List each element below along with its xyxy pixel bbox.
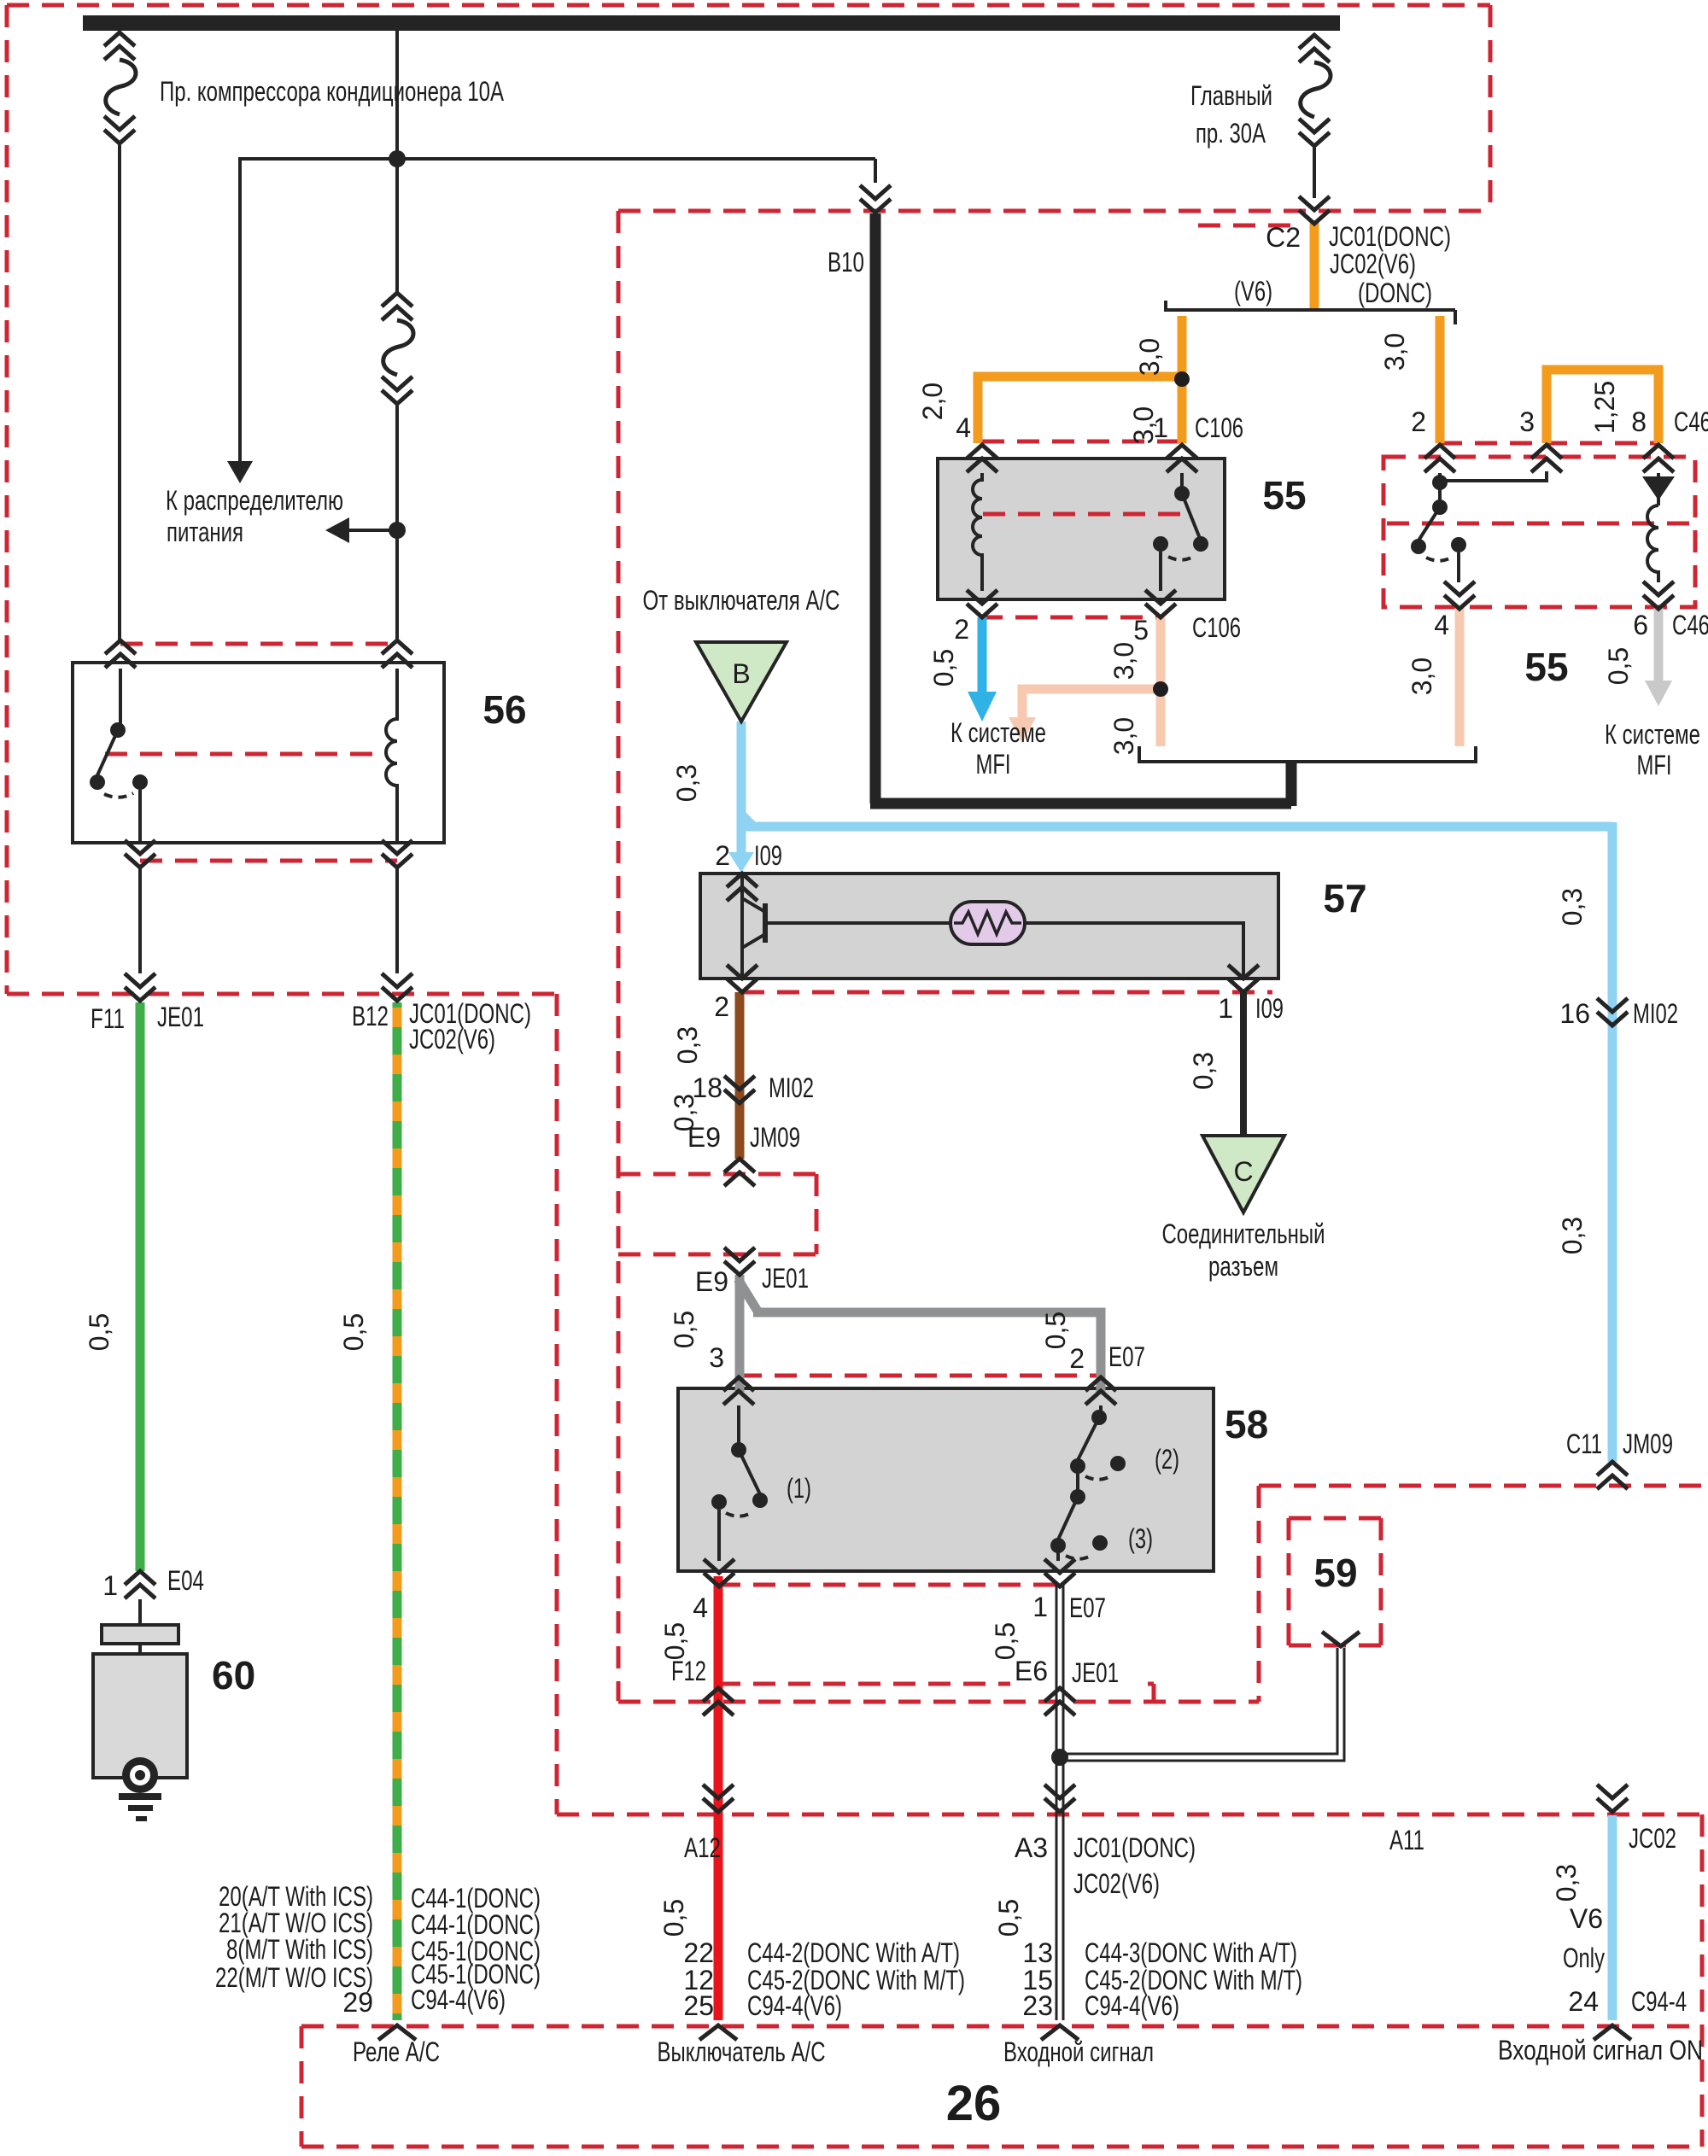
svg-text:C46: C46: [1674, 406, 1708, 437]
ECU pin arrow Vkhodnoy signal: [1041, 2025, 1079, 2040]
relay 55 right pin 6 arrow: [1643, 581, 1674, 609]
svg-text:Главный: Главный: [1190, 80, 1272, 111]
svg-text:JE01: JE01: [1072, 1657, 1119, 1688]
svg-text:1: 1: [1032, 1592, 1048, 1622]
wire relay 56 to B12 connector: [395, 868, 399, 973]
connector JE01 E9 arrow: [724, 1247, 755, 1275]
wire lightblue vertical right to C11 JM09: [1608, 822, 1617, 1462]
relay 55 left coil: [973, 473, 982, 591]
svg-text:пр. 30А: пр. 30А: [1196, 118, 1266, 149]
svg-text:C106: C106: [1192, 612, 1241, 643]
junction dot orange at pin1 C106: [1174, 371, 1190, 387]
connector F12 arrow: [703, 1688, 734, 1715]
svg-text:(1): (1): [787, 1473, 811, 1504]
svg-text:0,3: 0,3: [672, 1026, 703, 1064]
connector C46 dashed line: [1440, 441, 1658, 446]
fuse main 30A: [1299, 35, 1331, 146]
connector JE01 dashed line y1972: [718, 1684, 1154, 1702]
svg-text:Only: Only: [1563, 1943, 1605, 1973]
wire green 0.5 F11 JE01: [136, 1002, 145, 1571]
svg-text:5: 5: [1133, 615, 1149, 646]
connector A11 arrow: [1597, 1785, 1628, 1812]
svg-text:55: 55: [1524, 645, 1568, 689]
wire orange 1.25 loop pin3 to pin8 C46: [1547, 370, 1658, 443]
svg-text:(V6): (V6): [1234, 276, 1272, 307]
branch line V6 DONC: [1164, 301, 1455, 324]
triangle C junction connector: [1202, 1136, 1284, 1212]
relay 55 left pin 2 arrow: [967, 590, 997, 617]
connector C2 dashed line: [1198, 224, 1298, 228]
wire red 0.5 pin4 to A12: [714, 1576, 723, 2020]
relay 57 internal line: [765, 923, 1243, 979]
svg-text:E07: E07: [1108, 1341, 1145, 1372]
connector E6 JE01 arrow: [1044, 1688, 1075, 1715]
wire E04 to compressor clutch: [138, 1599, 142, 1654]
relay 55 right pin 8 arrow: [1643, 445, 1674, 472]
svg-text:2: 2: [714, 991, 729, 1022]
svg-text:E9: E9: [695, 1266, 728, 1297]
wire second fuse to relay 56 coil pin: [395, 406, 399, 640]
power bus bar: [83, 15, 1340, 31]
svg-text:B: B: [732, 658, 750, 689]
svg-text:0,5: 0,5: [1040, 1312, 1071, 1349]
svg-text:A12: A12: [684, 1832, 721, 1863]
relay 58 switch 1: [719, 1405, 760, 1561]
svg-text:B12: B12: [352, 1001, 389, 1031]
svg-text:60: 60: [212, 1653, 255, 1697]
distribution feed line: [240, 159, 875, 465]
wire thick black B10 run: [870, 213, 1291, 806]
connector JM09 E9 arrow: [724, 1159, 755, 1186]
svg-text:0,5: 0,5: [669, 1311, 699, 1348]
relay 55 right pin 4 arrow: [1444, 581, 1475, 609]
relay 58 pin 2 arrow: [1085, 1377, 1116, 1405]
svg-text:C44-3(DONC With A/T): C44-3(DONC With A/T): [1085, 1937, 1297, 1968]
svg-text:0,5: 0,5: [990, 1622, 1021, 1660]
svg-text:8: 8: [1631, 406, 1647, 437]
svg-text:3: 3: [1519, 406, 1535, 437]
harness right edge x1993: [1700, 1814, 1705, 2147]
wire black 0.3 pin1 I09 to C: [1240, 992, 1247, 1137]
svg-text:25: 25: [683, 1990, 714, 2021]
wire orange to pin2 C46: [1436, 316, 1445, 443]
svg-text:E9: E9: [687, 1122, 721, 1153]
harness box bottom edge y1164: [7, 992, 557, 996]
junction dot salmon pin5: [1153, 681, 1168, 697]
relay 56 coil: [386, 669, 397, 842]
svg-text:1,25: 1,25: [1589, 381, 1620, 434]
black bracket joining salmon wires: [1139, 746, 1476, 762]
svg-text:C94-4(V6): C94-4(V6): [411, 1984, 506, 2015]
relay 55 left pin 5 arrow: [1145, 590, 1176, 617]
svg-text:C46: C46: [1672, 610, 1708, 640]
arrowhead to power distribution: [227, 461, 253, 483]
relay 55 right pin 3 arrow: [1531, 445, 1562, 472]
svg-text:0,3: 0,3: [1188, 1052, 1219, 1090]
svg-text:26: 26: [946, 2076, 1002, 2131]
wire gray 0.5 loop to pin2 E07: [738, 1279, 1101, 1392]
junction dot white wire: [1051, 1749, 1068, 1766]
svg-text:C106: C106: [1195, 412, 1243, 443]
svg-text:C44-2(DONC With A/T): C44-2(DONC With A/T): [747, 1937, 960, 1968]
harness box left edge: [5, 5, 9, 994]
svg-text:MFI: MFI: [976, 749, 1011, 780]
svg-text:0,3: 0,3: [671, 764, 702, 802]
svg-text:16: 16: [1559, 998, 1590, 1029]
relay 55 right middle dashed: [1387, 522, 1693, 526]
wire salmon 3.0 from pin5 C106: [1156, 617, 1166, 746]
wire orange 2.0 loop to pin4 C106: [978, 377, 1182, 443]
svg-text:JC02(V6): JC02(V6): [409, 1024, 495, 1055]
svg-text:23: 23: [1022, 1990, 1053, 2021]
thermostat switch 58 body: [678, 1388, 1214, 1571]
relay 56 pin arrows bottom: [125, 840, 155, 868]
svg-text:3,0: 3,0: [1108, 717, 1139, 755]
connector C106 dashed lines (relay 55 left): [980, 441, 1184, 617]
svg-text:0,5: 0,5: [928, 649, 959, 687]
svg-text:К системе: К системе: [951, 717, 1046, 748]
connector A12 arrow: [703, 1785, 734, 1812]
harness box top edge: [7, 3, 1490, 8]
svg-text:2,0: 2,0: [917, 383, 948, 420]
wire white double pin1 E07 to A3: [1056, 1585, 1063, 2020]
wire main fuse to C2: [1313, 148, 1316, 198]
wire orange branch to pin1 C106: [1178, 316, 1187, 443]
connector B10 arrow: [874, 159, 877, 183]
svg-text:1: 1: [1218, 993, 1233, 1024]
block 59 inner dashed box: [1289, 1518, 1381, 1645]
svg-text:V6: V6: [1570, 1903, 1603, 1934]
junction dot distribution branch: [389, 522, 406, 539]
svg-text:E07: E07: [1069, 1592, 1106, 1623]
svg-text:3,0: 3,0: [1134, 338, 1165, 376]
svg-text:C94-4(V6): C94-4(V6): [747, 1990, 842, 2021]
relay 57 pin 2 top arrow: [727, 874, 757, 901]
harness bottom dashed y1993: [618, 1700, 1259, 1704]
relay 57 transistor: [742, 874, 765, 979]
connector MI02 16 arrow: [1597, 998, 1628, 1025]
svg-text:0,5: 0,5: [338, 1313, 369, 1351]
svg-text:24: 24: [1568, 1986, 1599, 2017]
relay 56 pin arrows top: [105, 640, 136, 668]
svg-text:13: 13: [1022, 1937, 1053, 1968]
svg-text:I09: I09: [1255, 993, 1284, 1024]
relay 57 pin 1 bottom arrow: [1228, 965, 1259, 992]
ground symbol compressor: [119, 1793, 161, 1800]
wire salmon 3.0 from pin4 C46: [1455, 607, 1465, 746]
svg-text:C94-4: C94-4: [1631, 1986, 1687, 2017]
relay 57 resistor capsule: [951, 902, 1025, 944]
relay 58 pin 4 arrow: [704, 1559, 734, 1586]
svg-text:3,0: 3,0: [1108, 642, 1139, 680]
relay 55 right dashed box: [1383, 457, 1695, 607]
harness box inner top edge y247: [618, 209, 1490, 213]
svg-text:F12: F12: [671, 1656, 706, 1686]
svg-text:питания: питания: [167, 517, 243, 547]
harness horizontal y2125: [557, 1813, 1702, 1817]
svg-text:57: 57: [1323, 876, 1366, 920]
svg-text:JC02(V6): JC02(V6): [1073, 1868, 1160, 1899]
relay 55 left pin 1 arrow: [1167, 445, 1197, 472]
svg-text:JC02(V6): JC02(V6): [1330, 248, 1416, 279]
connector JM09 C11 arrow: [1597, 1462, 1628, 1489]
svg-text:(2): (2): [1155, 1444, 1179, 1475]
junction dot top feed: [389, 150, 406, 167]
ECU pin arrow Rele A/C: [378, 2025, 416, 2040]
wire blue 0.5 from pin2 C106 to MFI: [978, 617, 987, 693]
svg-text:1: 1: [102, 1570, 118, 1601]
wire lightblue from triangle B: [737, 722, 746, 854]
svg-text:Пр. компрессора кондиционера 1: Пр. компрессора кондиционера 10А: [160, 76, 504, 107]
svg-text:0,3: 0,3: [1557, 888, 1588, 926]
arrow branch to distribution: [348, 529, 397, 532]
svg-text:JM09: JM09: [1623, 1429, 1673, 1459]
svg-text:A3: A3: [1015, 1832, 1048, 1863]
connector C2 arrow: [1299, 196, 1330, 224]
svg-text:C: C: [1233, 1156, 1253, 1187]
svg-text:0,5: 0,5: [993, 1899, 1024, 1937]
relay 58 pin 1 arrow: [1044, 1559, 1075, 1586]
block 59 outer dashed left edge: [1257, 1486, 1261, 1702]
svg-text:0,5: 0,5: [659, 1622, 690, 1660]
svg-text:E04: E04: [167, 1565, 204, 1596]
ECU pin arrow Vykl A/C: [699, 2025, 737, 2040]
relay 55 right pin 2 arrow: [1424, 445, 1455, 472]
relay 58 pin 3 arrow: [723, 1377, 754, 1405]
wire green-orange 0.5 B12 JC01/JC02: [393, 1002, 402, 2020]
harness box vertical x652: [555, 994, 559, 1814]
svg-text:22: 22: [683, 1937, 714, 1968]
svg-text:8(M/T With ICS): 8(M/T With ICS): [226, 1934, 373, 1965]
triangle B from A/C switch: [696, 642, 787, 722]
wire lightblue 0.3 A11 JC02: [1608, 1815, 1617, 2020]
svg-text:MFI: MFI: [1637, 750, 1672, 780]
svg-text:58: 58: [1225, 1402, 1268, 1446]
wire bus to second fuse: [395, 31, 399, 292]
svg-text:4: 4: [1434, 610, 1449, 640]
svg-text:0,5: 0,5: [658, 1899, 689, 1937]
svg-text:2: 2: [715, 840, 730, 871]
svg-text:(DONC): (DONC): [1358, 278, 1432, 308]
relay 55 right coil: [1647, 505, 1658, 582]
svg-text:A11: A11: [1389, 1825, 1424, 1855]
svg-text:Соединительный: Соединительный: [1162, 1218, 1325, 1249]
svg-text:2: 2: [954, 614, 969, 645]
arrowhead salmon MFI: [1009, 717, 1036, 743]
connector MI02 18 arrow: [724, 1076, 755, 1103]
svg-text:Реле А/С: Реле А/С: [353, 2036, 440, 2067]
svg-text:Выключатель А/С: Выключатель А/С: [658, 2036, 826, 2067]
wire lightblue horizontal main run: [737, 822, 1612, 832]
svg-text:MI02: MI02: [1633, 998, 1678, 1029]
relay 56 connector dashed lines: [105, 644, 397, 861]
svg-text:29: 29: [342, 1987, 373, 2018]
wire white double branch to block 59: [1063, 1648, 1344, 1761]
relay 55 left switch: [1161, 473, 1201, 591]
svg-text:2: 2: [1411, 406, 1426, 437]
wire from fuse to relay 56 pin: [118, 145, 121, 640]
svg-text:56: 56: [483, 687, 526, 732]
wire silver 0.5 from pin6 C46 to MFI: [1654, 607, 1664, 683]
relay 55 right switch: [1418, 473, 1459, 582]
harness box inner vertical x724: [617, 211, 621, 1701]
connector JM09 dashed notch: [618, 1174, 816, 1254]
thermal protector 57 body: [700, 874, 1278, 979]
svg-text:2: 2: [1069, 1343, 1085, 1374]
svg-text:К распределителю: К распределителю: [166, 485, 343, 516]
svg-text:От выключателя А/С: От выключателя А/С: [643, 585, 840, 616]
svg-text:C2: C2: [1266, 222, 1301, 253]
svg-text:C94-4(V6): C94-4(V6): [1085, 1990, 1179, 2021]
fuse second (relay 56 coil feed): [382, 293, 413, 404]
svg-text:3: 3: [709, 1342, 724, 1373]
relay 58 switch 2-3: [1058, 1405, 1101, 1561]
block 59 entry arrow: [1322, 1632, 1360, 1646]
compressor 60 clutch block: [102, 1625, 178, 1644]
relay 56 body: [73, 663, 444, 843]
svg-text:Входной сигнал: Входной сигнал: [1003, 2036, 1154, 2067]
relay 55 left pin 4 arrow: [967, 445, 997, 472]
svg-text:разъем: разъем: [1208, 1251, 1278, 1282]
wire gray JE01 to pin3 E07: [735, 1275, 745, 1392]
svg-text:0,5: 0,5: [1603, 647, 1634, 685]
relay 57 pin 2 bottom arrow: [727, 965, 757, 992]
wire salmon branch to MFI arrow: [1022, 689, 1161, 719]
svg-text:4: 4: [956, 412, 971, 443]
arrowhead silver MFI: [1645, 681, 1672, 706]
svg-text:Входной сигнал ON: Входной сигнал ON: [1498, 2035, 1703, 2065]
ECU pin arrow Vkhodnoy signal ON: [1594, 2025, 1631, 2040]
svg-text:3,0: 3,0: [1379, 333, 1410, 371]
arrowhead lightblue at pin2 I09: [728, 852, 754, 873]
compressor 60 motor body: [93, 1654, 187, 1778]
svg-text:JM09: JM09: [750, 1122, 800, 1153]
svg-text:F11: F11: [91, 1003, 125, 1034]
relay 55 right link dot2 to pin3: [1440, 471, 1547, 481]
svg-text:0,3: 0,3: [1551, 1864, 1582, 1902]
svg-text:59: 59: [1313, 1551, 1357, 1595]
svg-text:(3): (3): [1128, 1523, 1153, 1554]
connector A3 arrow: [1044, 1785, 1075, 1812]
compressor pulley: [122, 1757, 158, 1793]
svg-text:0,5: 0,5: [84, 1313, 114, 1351]
svg-text:6: 6: [1633, 610, 1648, 640]
svg-text:1: 1: [1153, 412, 1168, 443]
svg-text:К системе: К системе: [1605, 719, 1700, 750]
svg-text:4: 4: [693, 1592, 708, 1623]
ECU box 26 dashed border: [301, 2026, 1699, 2147]
svg-text:0,3: 0,3: [1557, 1217, 1588, 1254]
wire brown 0.3 pin2 I09 to JM09: [735, 992, 745, 1159]
svg-text:MI02: MI02: [769, 1072, 814, 1103]
relay 55 left body (C106 compressor relay): [938, 459, 1225, 599]
relay 57 bottom dashed (connector I09): [742, 990, 1272, 995]
connector E04 arrow: [125, 1571, 155, 1598]
svg-text:55: 55: [1262, 473, 1306, 517]
relay 56 switch: [97, 669, 140, 842]
svg-text:JE01: JE01: [762, 1263, 809, 1294]
svg-text:E6: E6: [1015, 1656, 1048, 1686]
fuse compressor 10A: [104, 32, 136, 143]
relay 55 right diode: [1657, 473, 1660, 505]
svg-text:I09: I09: [754, 840, 782, 871]
svg-text:C11: C11: [1566, 1429, 1602, 1459]
block 59 outer dashed top edge: [1259, 1484, 1708, 1488]
svg-text:JC01(DONC): JC01(DONC): [1329, 221, 1451, 252]
wire relay 56 to F11 connector: [138, 868, 142, 973]
arrowhead blue MFI: [968, 692, 997, 722]
svg-text:3,0: 3,0: [1407, 657, 1437, 695]
svg-text:JC02: JC02: [1629, 1823, 1676, 1854]
svg-text:B10: B10: [828, 247, 864, 278]
svg-text:JC01(DONC): JC01(DONC): [1073, 1832, 1196, 1863]
harness box right edge: [1489, 5, 1493, 211]
svg-text:JE01: JE01: [157, 1002, 204, 1032]
wire orange C2 (JC01/JC02): [1310, 220, 1319, 312]
relay 58 connector dashed lines (E07): [718, 1376, 1102, 1585]
